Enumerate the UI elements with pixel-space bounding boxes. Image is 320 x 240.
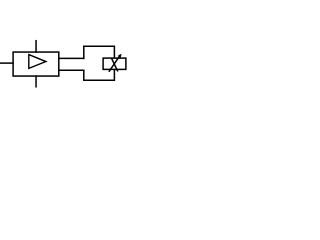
wire top lead [35, 41, 37, 52]
amplifier box U1 [13, 52, 59, 76]
valve body box [84, 46, 115, 80]
wire input left [1, 62, 14, 64]
adjustment arrow head [118, 54, 121, 57]
cross diagonal [112, 58, 118, 71]
wire upper link [59, 57, 84, 59]
restrictor box [103, 58, 126, 69]
amplifier triangle [29, 55, 46, 69]
adjustment arrow shaft [109, 56, 120, 72]
wire bottom lead [35, 76, 37, 87]
wire lower link [59, 69, 84, 71]
